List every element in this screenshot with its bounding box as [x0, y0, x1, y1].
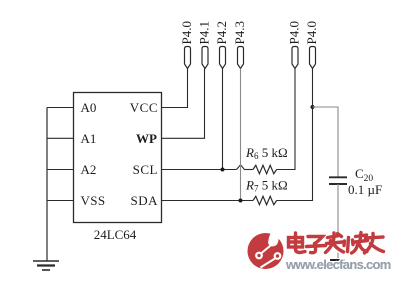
wire WP to T2: [162, 69, 205, 139]
svg-text:R6 5 kΩ: R6 5 kΩ: [245, 145, 288, 161]
ground bar under capacitor (over watermark): [330, 259, 345, 261]
connector terminal P4.0 (T6): [304, 21, 319, 68]
svg-text:0.1 µF: 0.1 µF: [348, 182, 382, 197]
svg-text:24LC64: 24LC64: [94, 227, 137, 242]
wire SDA horizontal: [162, 200, 254, 202]
wire VCC to T1: [162, 69, 188, 108]
watermark text you (friend): [365, 234, 384, 254]
svg-text:P4.0: P4.0: [179, 21, 194, 44]
wire T3 vertical to SCL: [222, 69, 224, 170]
svg-text:SCL: SCL: [133, 162, 158, 177]
ground: [33, 261, 59, 270]
wire capacitor to ground: [337, 184, 339, 258]
wire A1 stub: [47, 137, 74, 139]
resistor R6 zigzag: [253, 165, 277, 173]
wire R7 to T6: [277, 69, 313, 201]
svg-text:WP: WP: [136, 131, 157, 146]
svg-text:P4.1: P4.1: [197, 21, 212, 44]
wire R6 to T5: [277, 69, 295, 170]
capacitor C20 bottom plate: [329, 183, 347, 185]
junction dot SDA/P4.3: [239, 199, 243, 203]
svg-text:SDA: SDA: [130, 193, 158, 208]
watermark white halo: [289, 233, 384, 254]
svg-text:VCC: VCC: [130, 100, 158, 115]
svg-text:www.elecfans.com: www.elecfans.com: [285, 257, 391, 272]
watermark logo circle: [248, 229, 284, 269]
svg-text:A1: A1: [81, 131, 97, 146]
svg-text:P4.2: P4.2: [214, 21, 229, 44]
svg-text:A0: A0: [81, 100, 97, 115]
svg-text:R7 5 kΩ: R7 5 kΩ: [245, 178, 288, 194]
junction dot SCL/P4.2: [221, 168, 225, 172]
capacitor C20 top plate: [329, 176, 347, 178]
resistor R7 zigzag: [253, 196, 277, 204]
watermark text zi (child): [307, 237, 326, 253]
wire SCL horizontal: [162, 169, 237, 171]
connector terminal P4.0 (T5): [287, 21, 302, 68]
connector terminal P4.2 (T3): [214, 21, 229, 68]
connector terminal P4.0 (T1): [179, 21, 194, 68]
watermark text dian (electric): [289, 233, 306, 253]
svg-text:P4.3: P4.3: [232, 21, 247, 44]
junction dot capacitor branch: [311, 105, 315, 109]
wire hop to resistor R6: [245, 169, 254, 171]
wire T4 vertical to SDA: [240, 69, 242, 201]
wire A2 stub: [47, 169, 74, 171]
IC U1 24LC64 body: [74, 93, 162, 223]
connector terminal P4.1 (T2): [197, 21, 212, 68]
watermark text fa (emit): [326, 233, 344, 253]
wire capacitor branch: [313, 107, 339, 177]
wire ground bus: [46, 108, 48, 262]
wire VSS stub: [47, 200, 74, 202]
svg-text:P4.0: P4.0: [304, 21, 319, 44]
wire A0 stub: [47, 107, 74, 109]
svg-text:P4.0: P4.0: [287, 21, 302, 44]
connector terminal P4.3 (T4): [232, 21, 247, 68]
svg-text:A2: A2: [81, 162, 97, 177]
wire hop over P4.3 line: [237, 165, 245, 170]
watermark text shao (burn): [344, 233, 368, 254]
svg-text:VSS: VSS: [81, 193, 106, 208]
